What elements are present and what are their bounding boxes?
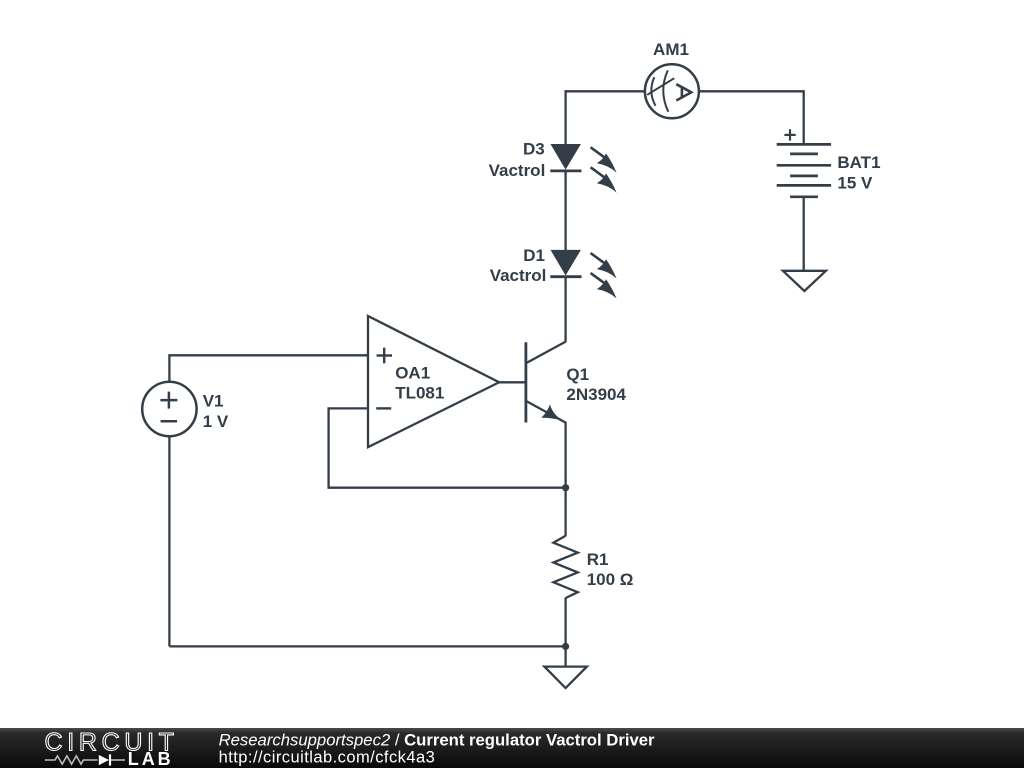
wire R1 to bottom node	[564, 598, 566, 647]
wire bottom node to ground	[564, 646, 566, 667]
diode D1 (Vactrol LED)	[550, 251, 616, 299]
wire D1 to Q1 collector	[564, 277, 566, 342]
wire Q1 emitter to node A	[564, 422, 566, 488]
svg-text:Researchsupportspec2 / Current: Researchsupportspec2 / Current regulator…	[219, 731, 655, 750]
svg-text:TL081: TL081	[395, 384, 444, 403]
wire ammeter to battery top	[699, 91, 804, 144]
svg-text:Q1: Q1	[566, 365, 589, 384]
op-amp plus input sign	[377, 354, 393, 356]
ground (battery)	[783, 271, 826, 291]
junction node A (emitter/feedback/R1)	[562, 484, 569, 491]
wire V1 negative terminal down	[168, 436, 170, 646]
svg-text:R1: R1	[587, 550, 609, 569]
wire feedback (node A to op-amp inverting input)	[329, 408, 566, 487]
voltage source V1	[142, 382, 196, 436]
D1 emission arrow 2	[591, 273, 605, 284]
Q1 emitter arrowhead	[541, 404, 563, 420]
Q1 emitter	[527, 401, 566, 423]
svg-text:V1: V1	[203, 391, 224, 410]
wire top-left vertical (node to D3)	[566, 91, 645, 145]
op-amp OA1	[368, 316, 499, 447]
svg-text:D1: D1	[523, 246, 545, 265]
transistor Q1	[526, 342, 566, 423]
wire D3 to D1	[564, 171, 566, 251]
D3 emission arrow 2	[591, 167, 605, 178]
svg-text:OA1: OA1	[395, 363, 430, 382]
wire op-amp output to Q1 base	[499, 381, 526, 383]
svg-text:Vactrol: Vactrol	[489, 161, 546, 180]
svg-text:http://circuitlab.com/cfck4a3: http://circuitlab.com/cfck4a3	[219, 749, 436, 767]
wire node A to R1	[564, 488, 566, 537]
svg-text:15 V: 15 V	[837, 174, 873, 193]
footer bar	[0, 728, 1024, 768]
wire V1 positive to op-amp non-inverting input	[169, 355, 368, 382]
op-amp minus input sign	[376, 407, 391, 409]
wire bottom horizontal V1 to bottom node	[169, 645, 565, 647]
svg-text:2N3904: 2N3904	[566, 385, 626, 404]
svg-text:AM1: AM1	[653, 40, 689, 59]
svg-text:1 V: 1 V	[203, 412, 229, 431]
resistor R1	[553, 536, 577, 598]
battery BAT1	[777, 129, 831, 197]
V1 minus sign	[161, 420, 178, 423]
svg-text:LAB: LAB	[128, 749, 174, 768]
logo resistor-diode squiggle	[45, 754, 125, 765]
Q1 collector	[527, 342, 566, 363]
svg-text:BAT1: BAT1	[837, 153, 880, 172]
battery plus sign	[784, 134, 795, 136]
D3 emission arrow 1	[591, 147, 605, 158]
svg-text:100 Ω: 100 Ω	[587, 570, 634, 589]
junction bottom node	[562, 643, 569, 650]
ammeter AM1	[645, 64, 699, 118]
ground (bottom)	[544, 667, 587, 688]
diode D3 (Vactrol LED)	[550, 145, 616, 193]
V1 plus sign	[160, 399, 177, 402]
wire battery bottom to ground	[803, 197, 805, 271]
D1 emission arrow 1	[591, 253, 605, 264]
svg-text:Vactrol: Vactrol	[490, 266, 547, 285]
svg-text:D3: D3	[523, 140, 545, 159]
